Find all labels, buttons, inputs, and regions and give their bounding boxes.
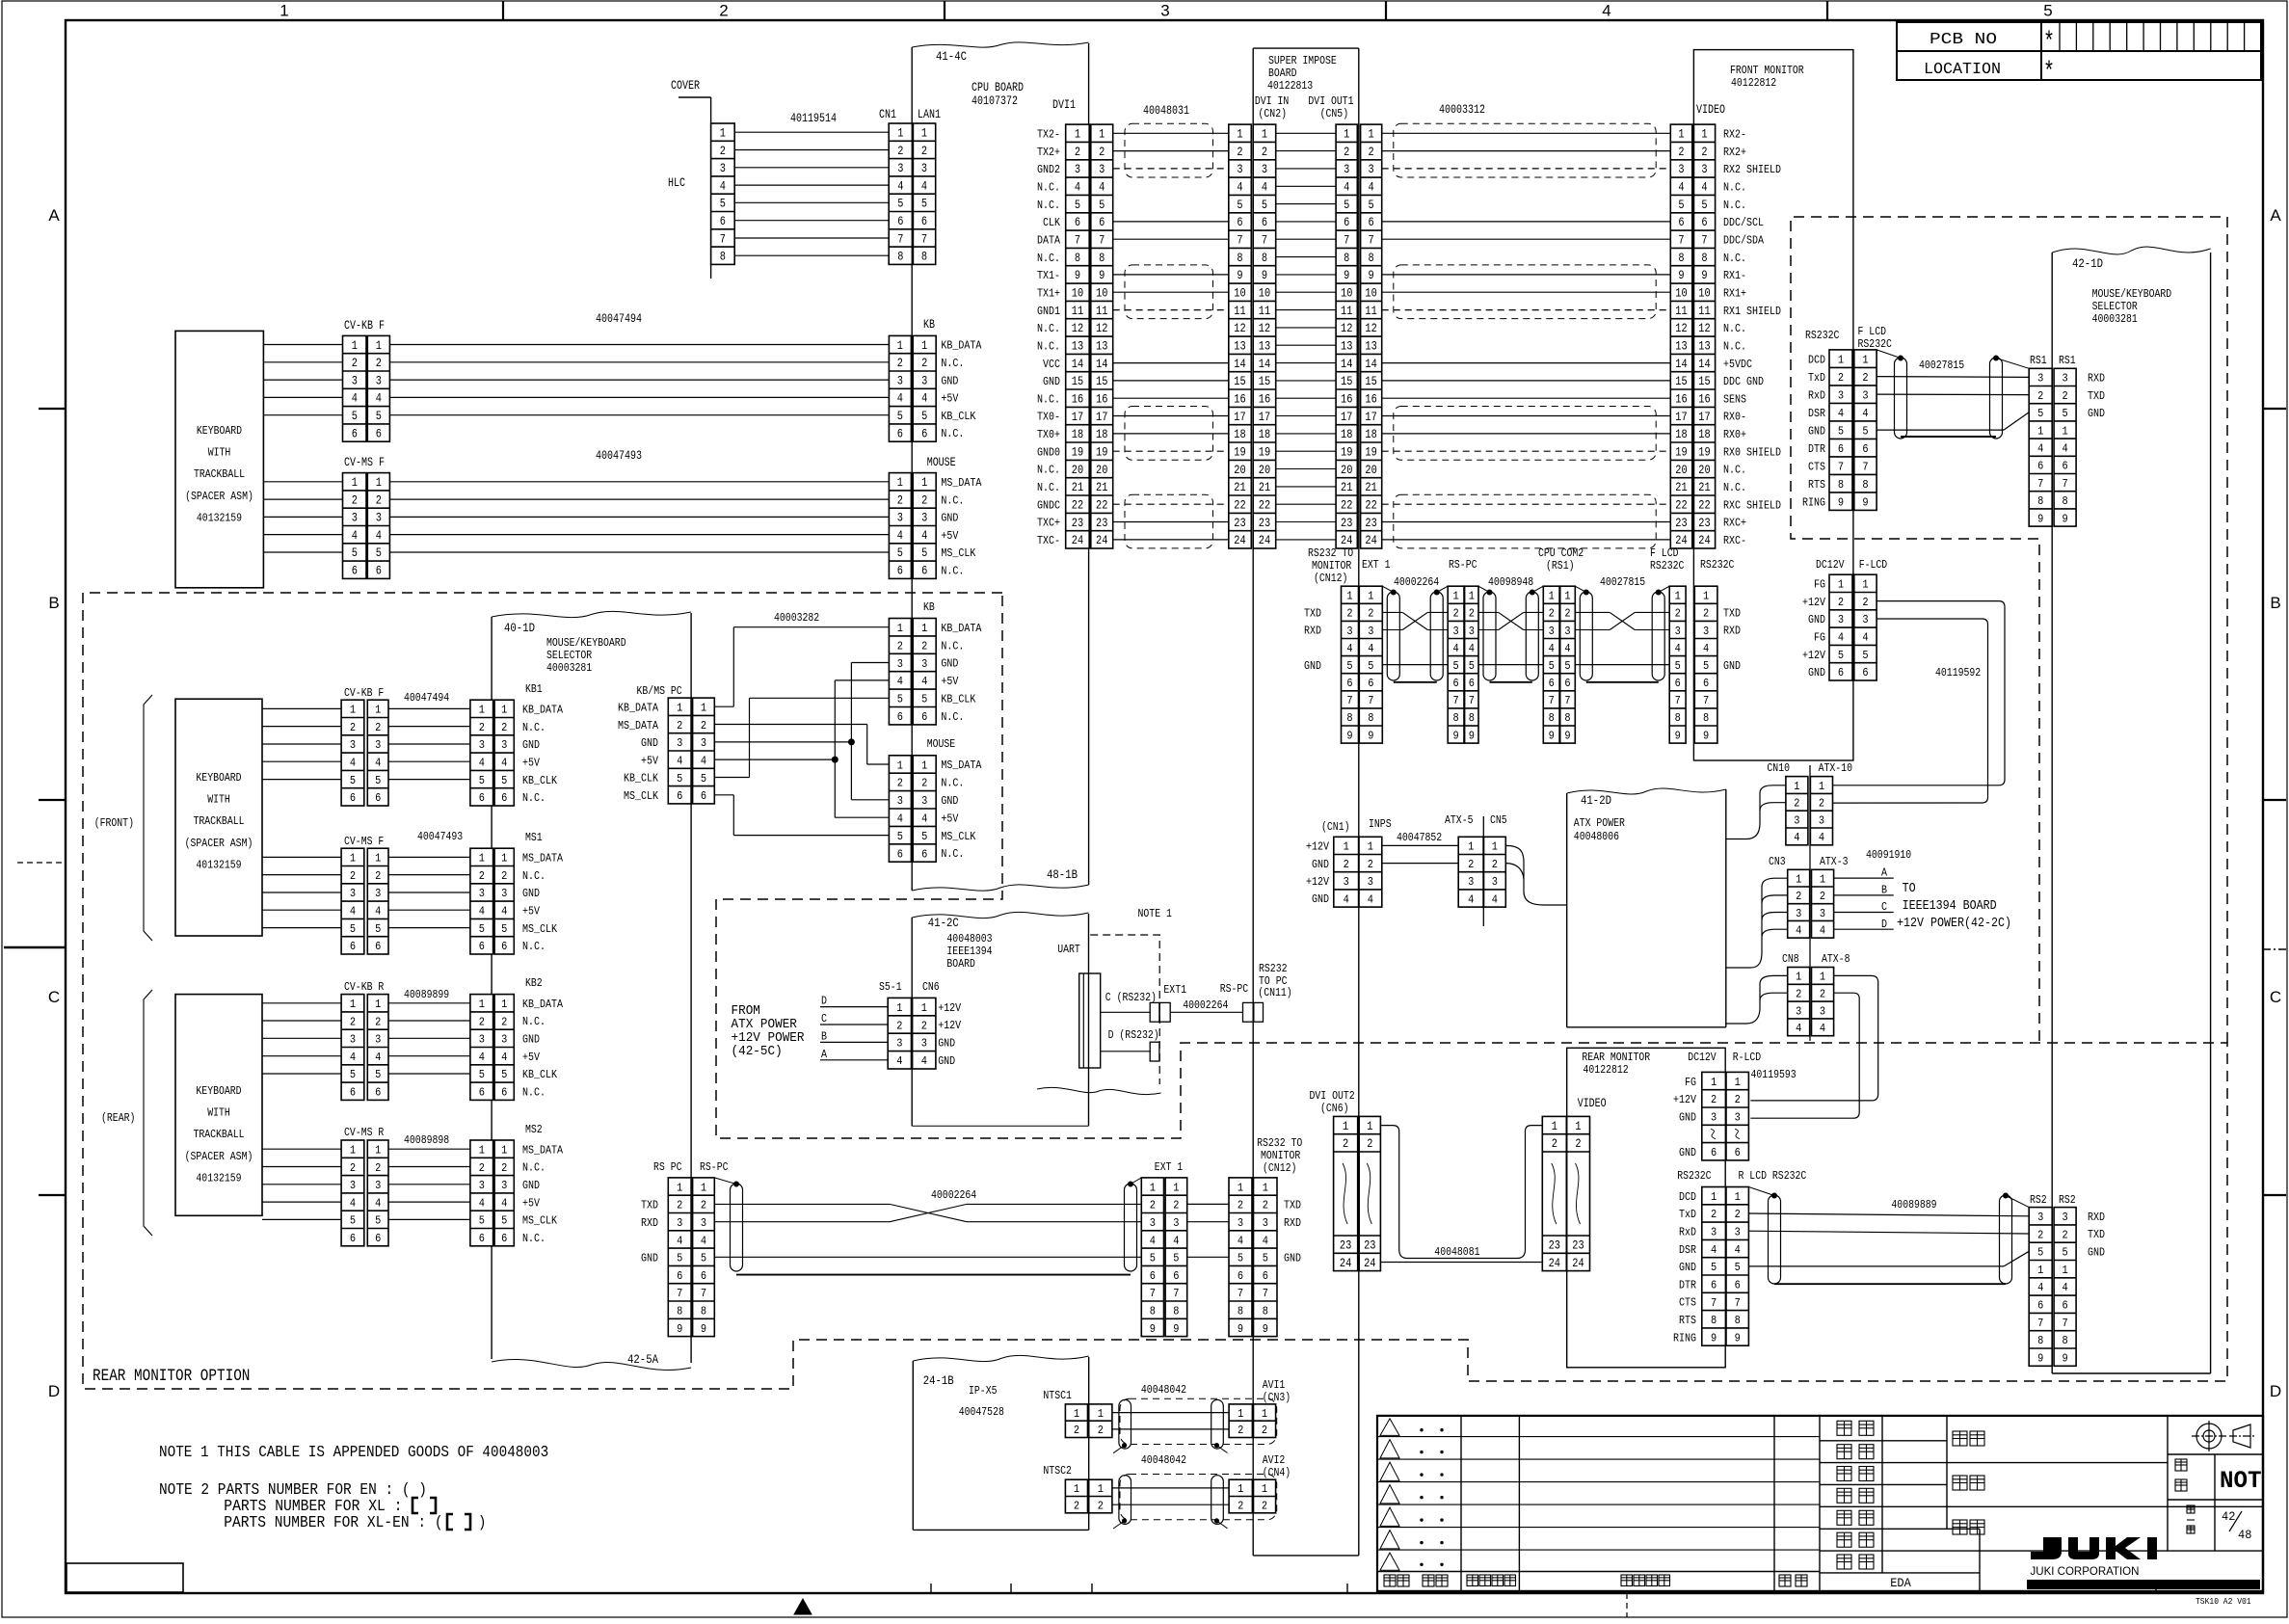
svg-text:5: 5 (701, 773, 706, 785)
svg-text:2: 2 (376, 357, 382, 370)
svg-text:6: 6 (677, 790, 682, 803)
svg-text:1: 1 (1368, 841, 1373, 854)
svg-text:6: 6 (1369, 216, 1374, 229)
svg-text:4: 4 (1150, 1235, 1156, 1247)
svg-text:CV-MS R: CV-MS R (344, 1127, 384, 1139)
svg-text:5: 5 (376, 546, 382, 560)
bracket front (144, 695, 152, 941)
svg-text:5: 5 (1549, 660, 1555, 673)
svg-text:4: 4 (896, 1055, 902, 1068)
svg-text:EXT 1: EXT 1 (1155, 1161, 1184, 1174)
svg-text:6: 6 (897, 711, 903, 724)
dashed boundary F-LCD option region (1791, 217, 2227, 1043)
svg-text:RS2: RS2 (2059, 1194, 2076, 1207)
svg-text:6: 6 (897, 565, 903, 578)
svg-text:5: 5 (1453, 660, 1459, 673)
svg-text:4: 4 (1346, 643, 1352, 655)
svg-text:2: 2 (479, 1162, 485, 1175)
svg-text:6: 6 (921, 565, 927, 578)
svg-text:4: 4 (352, 529, 358, 543)
svg-text:23: 23 (1572, 1239, 1584, 1253)
svg-text:+5V: +5V (522, 1197, 540, 1210)
svg-text:2: 2 (897, 778, 903, 790)
svg-text:2: 2 (1675, 608, 1681, 621)
svg-text:2: 2 (921, 640, 927, 652)
title block frame (1377, 1416, 2263, 1591)
svg-text:+5V: +5V (522, 906, 540, 918)
svg-text:GND: GND (1723, 660, 1741, 673)
svg-text:DSR: DSR (1808, 408, 1825, 420)
svg-text:2: 2 (1367, 1137, 1372, 1151)
svg-text:24: 24 (1341, 534, 1352, 547)
svg-text:N.C.: N.C. (522, 722, 546, 734)
connector RS PC lower (668, 1178, 714, 1337)
svg-text:5: 5 (1735, 1262, 1741, 1274)
svg-text:8: 8 (1099, 252, 1105, 265)
svg-text:40003281: 40003281 (2092, 313, 2138, 326)
svg-text:8: 8 (1369, 252, 1374, 265)
svg-text:5: 5 (1703, 660, 1709, 673)
svg-text:SUPER IMPOSE: SUPER IMPOSE (1268, 55, 1337, 67)
svg-text:1: 1 (1575, 1120, 1581, 1133)
svg-text:2: 2 (1346, 608, 1352, 621)
svg-text:KEYBOARD: KEYBOARD (196, 772, 241, 785)
svg-text:2: 2 (1099, 146, 1105, 159)
svg-text:CN10: CN10 (1767, 762, 1790, 775)
svg-text:1: 1 (1552, 1120, 1557, 1133)
svg-text:8: 8 (1173, 1306, 1179, 1318)
svg-text:N.C.: N.C. (1723, 465, 1746, 477)
svg-text:40122812: 40122812 (1584, 1064, 1629, 1077)
svg-text:15: 15 (1259, 375, 1270, 388)
svg-text:3: 3 (1819, 814, 1824, 827)
svg-text:KB: KB (923, 318, 935, 332)
svg-text:3: 3 (1678, 163, 1684, 176)
svg-text:7: 7 (1564, 695, 1570, 707)
svg-text:KB_CLK: KB_CLK (522, 775, 557, 787)
svg-text:5: 5 (350, 923, 356, 936)
connector DC12V F-LCD (1829, 574, 1876, 680)
svg-text:9: 9 (1173, 1323, 1179, 1336)
svg-text:3: 3 (350, 1180, 356, 1192)
svg-text:3: 3 (897, 374, 903, 387)
svg-text:1: 1 (501, 853, 507, 865)
svg-text:4: 4 (701, 755, 706, 767)
svg-text:1: 1 (1796, 972, 1801, 984)
svg-text:LOCATION: LOCATION (1924, 61, 2001, 79)
svg-text:RING: RING (1673, 1332, 1696, 1344)
svg-text:1: 1 (479, 1145, 485, 1158)
svg-text:3: 3 (1369, 163, 1374, 176)
svg-text:1: 1 (1367, 1120, 1372, 1133)
connector CV-KB F front (343, 335, 390, 441)
svg-text:5: 5 (1711, 1262, 1717, 1274)
svg-text:41-4C: 41-4C (936, 50, 967, 64)
svg-text:3: 3 (350, 739, 356, 752)
svg-text:24: 24 (1549, 1257, 1560, 1270)
svg-text:1: 1 (897, 127, 903, 141)
svg-text:3: 3 (2063, 373, 2068, 386)
svg-text:1: 1 (1564, 591, 1570, 603)
svg-text:MOUSE: MOUSE (927, 738, 956, 751)
svg-text:3: 3 (375, 888, 381, 900)
svg-text:WITH: WITH (207, 794, 230, 807)
svg-text:TX1+: TX1+ (1037, 287, 1060, 300)
svg-text:6: 6 (1238, 1270, 1243, 1283)
svg-text:INPS: INPS (1369, 818, 1392, 831)
connector RS1 mouse keyboard selector (2029, 368, 2076, 526)
svg-text:1: 1 (350, 998, 356, 1011)
svg-text:5: 5 (897, 546, 903, 560)
svg-text:8: 8 (1701, 252, 1707, 265)
svg-text:KB_CLK: KB_CLK (624, 773, 658, 785)
svg-text:C: C (48, 988, 60, 1006)
svg-text:1: 1 (1819, 781, 1824, 793)
svg-text:4: 4 (720, 179, 726, 193)
svg-text:MS_DATA: MS_DATA (941, 477, 981, 490)
svg-text:2: 2 (1796, 989, 1801, 1001)
svg-text:TX0+: TX0+ (1037, 429, 1060, 441)
svg-text:19: 19 (1341, 446, 1352, 460)
svg-text:40089889: 40089889 (1891, 1199, 1936, 1211)
svg-text:7: 7 (1711, 1297, 1717, 1310)
svg-text:KB_CLK: KB_CLK (941, 694, 975, 706)
svg-text:N.C.: N.C. (941, 640, 964, 652)
svg-text:6: 6 (375, 792, 381, 805)
svg-text:6: 6 (1735, 1147, 1741, 1159)
svg-text:1: 1 (1262, 128, 1267, 142)
svg-text:DATA: DATA (1037, 234, 1060, 247)
svg-text:6: 6 (501, 1087, 507, 1100)
svg-text:1: 1 (921, 623, 927, 635)
connector AVI2 (1229, 1479, 1276, 1513)
svg-text:23: 23 (1341, 517, 1352, 530)
svg-text:9: 9 (1369, 269, 1374, 282)
svg-text:MS2: MS2 (525, 1124, 543, 1136)
svg-text:16: 16 (1234, 393, 1245, 407)
svg-text:16: 16 (1072, 393, 1083, 407)
svg-text:5: 5 (2037, 408, 2043, 420)
svg-text:10: 10 (1072, 287, 1083, 301)
svg-text:+12V POWER(42-2C): +12V POWER(42-2C) (1897, 917, 2011, 931)
svg-text:+12V: +12V (1306, 841, 1329, 854)
connector RS2 (2029, 1208, 2076, 1367)
svg-text:9: 9 (2063, 1353, 2068, 1366)
svg-text:2: 2 (1098, 1424, 1104, 1437)
svg-text:1: 1 (501, 705, 507, 717)
svg-text:1: 1 (1343, 1120, 1348, 1133)
svg-text:40027815: 40027815 (1600, 576, 1645, 589)
svg-text:6: 6 (1862, 667, 1868, 679)
svg-text:10: 10 (1096, 287, 1107, 301)
svg-text:5: 5 (701, 1253, 706, 1265)
svg-text:6: 6 (921, 711, 927, 724)
svg-text:N.C.: N.C. (941, 428, 964, 440)
svg-text:6: 6 (1099, 216, 1105, 229)
svg-text:5: 5 (1701, 199, 1707, 212)
svg-text:5: 5 (1369, 199, 1374, 212)
svg-text:40119593: 40119593 (1751, 1069, 1797, 1081)
svg-text:1: 1 (350, 705, 356, 717)
svg-text:40119514: 40119514 (790, 112, 837, 125)
svg-text:GND: GND (641, 1253, 658, 1265)
svg-text:4: 4 (1838, 408, 1844, 420)
svg-text:EXT 1: EXT 1 (1362, 559, 1391, 572)
svg-text:23: 23 (1698, 517, 1710, 530)
svg-text:21: 21 (1259, 481, 1270, 494)
svg-text:9: 9 (1263, 1323, 1268, 1336)
connector CN3 ATX-3 (1788, 869, 1834, 938)
svg-text:TX2-: TX2- (1037, 129, 1060, 142)
svg-text:18: 18 (1096, 428, 1107, 441)
svg-text:19: 19 (1698, 446, 1710, 460)
svg-text:9: 9 (1238, 1323, 1243, 1336)
svg-text:R LCD RS232C: R LCD RS232C (1739, 1170, 1807, 1183)
svg-text:2: 2 (1838, 597, 1844, 609)
svg-text:6: 6 (479, 1233, 485, 1245)
svg-text:2: 2 (1238, 1424, 1243, 1437)
svg-text:2: 2 (375, 1162, 381, 1175)
wire EXT1 to RS-PC plug (1170, 1011, 1242, 1013)
svg-text:40089898: 40089898 (404, 1134, 449, 1147)
svg-text:4: 4 (2063, 443, 2068, 456)
svg-text:3: 3 (1838, 614, 1844, 626)
svg-text:3: 3 (479, 1180, 485, 1192)
svg-text:TO PC: TO PC (1259, 975, 1288, 988)
svg-text:2: 2 (376, 493, 382, 507)
svg-text:1: 1 (479, 998, 485, 1011)
svg-text:5: 5 (1075, 199, 1080, 212)
svg-text:40048006: 40048006 (1574, 831, 1619, 843)
svg-text:40132159: 40132159 (197, 512, 242, 524)
svg-text:EDA: EDA (1890, 1576, 1911, 1590)
wires keyboard to CV-MS F (263, 481, 342, 483)
svg-text:GND: GND (1043, 376, 1060, 388)
connector AVI1 (1229, 1404, 1276, 1438)
svg-text:EXT1: EXT1 (1163, 984, 1186, 997)
svg-text:13: 13 (1698, 340, 1710, 354)
svg-text:2: 2 (1074, 1424, 1079, 1437)
svg-text:8: 8 (1862, 479, 1868, 492)
svg-text:TXD: TXD (1284, 1200, 1301, 1212)
svg-text:2: 2 (1344, 146, 1349, 159)
svg-text:7: 7 (1344, 234, 1349, 248)
svg-text:3: 3 (501, 739, 507, 752)
svg-text:GND: GND (1304, 660, 1321, 673)
svg-text:TXD: TXD (1304, 608, 1321, 621)
svg-text:6: 6 (1150, 1270, 1156, 1283)
svg-text:2: 2 (896, 1020, 902, 1032)
svg-text:CN5: CN5 (1490, 814, 1507, 827)
svg-text:DTR: DTR (1679, 1279, 1696, 1291)
svg-text:6: 6 (720, 215, 726, 228)
svg-text:(CN12): (CN12) (1263, 1162, 1296, 1175)
svg-text:23: 23 (1234, 517, 1245, 530)
svg-text:PARTS NUMBER FOR XL-EN : (: PARTS NUMBER FOR XL-EN : ( (224, 1513, 442, 1531)
svg-text:23: 23 (1549, 1239, 1560, 1253)
svg-text:1: 1 (1074, 1408, 1079, 1421)
svg-text:6: 6 (1469, 678, 1475, 690)
svg-text:15: 15 (1234, 375, 1245, 388)
svg-text:3: 3 (1075, 163, 1080, 176)
svg-text:1: 1 (677, 1182, 682, 1194)
svg-text:MS_DATA: MS_DATA (618, 720, 658, 732)
svg-text:4: 4 (479, 1197, 485, 1210)
svg-text:20: 20 (1259, 464, 1270, 477)
svg-text:7: 7 (1238, 1288, 1243, 1300)
svg-text:20: 20 (1698, 464, 1710, 477)
svg-text:40-1D: 40-1D (504, 622, 535, 635)
svg-text:13: 13 (1341, 340, 1352, 354)
svg-text:(CN12): (CN12) (1314, 572, 1347, 585)
board CPU BOARD 41-4C outline (911, 47, 913, 891)
svg-text:+12V POWER: +12V POWER (732, 1031, 805, 1046)
svg-text:9: 9 (1469, 730, 1475, 742)
svg-text:4: 4 (1468, 893, 1474, 906)
svg-text:4: 4 (501, 1052, 507, 1064)
svg-text:7: 7 (1735, 1297, 1741, 1310)
wires CV-KB F to KB (389, 344, 889, 346)
svg-text:6: 6 (1453, 678, 1459, 690)
svg-text:TxD: TxD (1679, 1209, 1696, 1221)
svg-text:RXD: RXD (641, 1217, 658, 1230)
svg-text:40047493: 40047493 (596, 449, 642, 463)
connector MOUSE upper (889, 473, 936, 579)
svg-text:3: 3 (352, 374, 358, 387)
connector RS-PC plug CN11 (1243, 1002, 1254, 1022)
svg-text:CV-KB R: CV-KB R (344, 981, 384, 994)
svg-text:UART: UART (1057, 944, 1080, 956)
svg-text:(CN11): (CN11) (1258, 987, 1291, 999)
svg-text:KB_DATA: KB_DATA (941, 623, 981, 635)
svg-text:GND: GND (1679, 1262, 1696, 1274)
connector KB2 (470, 995, 514, 1101)
svg-text:DC12V: DC12V (1688, 1052, 1717, 1064)
wires DVI IN to DVI OUT1 (1276, 132, 1336, 134)
svg-text:IEEE1394 BOARD: IEEE1394 BOARD (1903, 899, 1997, 914)
svg-text:KB_CLK: KB_CLK (522, 1069, 557, 1081)
wires CV-KB F to KB1 (388, 707, 470, 709)
svg-text:8: 8 (1711, 1315, 1717, 1327)
svg-text:4: 4 (375, 758, 381, 770)
svg-text:FROM: FROM (732, 1004, 760, 1019)
svg-text:15: 15 (1675, 375, 1687, 388)
svg-text:4: 4 (376, 392, 382, 406)
svg-text:RS232C: RS232C (1677, 1170, 1711, 1183)
svg-text:+5V: +5V (522, 758, 540, 770)
svg-text:(CN6): (CN6) (1320, 1103, 1349, 1115)
svg-text:6: 6 (921, 427, 927, 440)
svg-text:6: 6 (1564, 678, 1570, 690)
svg-text:2: 2 (1735, 1209, 1741, 1221)
connector KB upper (889, 335, 936, 441)
svg-text:N.C.: N.C. (1723, 482, 1746, 494)
svg-text:GND: GND (1679, 1111, 1696, 1124)
svg-text:RXC SHIELD: RXC SHIELD (1723, 499, 1781, 512)
svg-text:10: 10 (1365, 287, 1376, 301)
svg-text:1: 1 (350, 853, 356, 865)
svg-text:42: 42 (2222, 1509, 2235, 1524)
svg-text:24: 24 (1698, 534, 1710, 547)
svg-text:1: 1 (1820, 873, 1825, 886)
svg-text:24: 24 (1365, 534, 1376, 547)
svg-text:6: 6 (1838, 443, 1844, 456)
svg-text:2: 2 (1173, 1200, 1179, 1212)
board IP-X5 24-1B outline (912, 1361, 914, 1530)
svg-text:6: 6 (1237, 216, 1242, 229)
svg-text:4: 4 (1344, 893, 1349, 906)
svg-text:B: B (1881, 884, 1887, 896)
svg-text:+5V: +5V (641, 755, 658, 767)
svg-text:6: 6 (479, 792, 485, 805)
svg-text:5: 5 (1173, 1253, 1179, 1265)
svg-text:5: 5 (375, 775, 381, 787)
svg-text:5: 5 (2063, 408, 2068, 420)
svg-text:CPU COM2: CPU COM2 (1538, 547, 1584, 560)
svg-text:TXC+: TXC+ (1037, 518, 1060, 530)
svg-text:3: 3 (350, 888, 356, 900)
svg-text:(REAR): (REAR) (101, 1112, 135, 1125)
connector EXT1 plug (1150, 1002, 1159, 1022)
svg-text:1: 1 (921, 476, 927, 490)
svg-text:6: 6 (2037, 1300, 2043, 1313)
svg-text:TRACKBALL: TRACKBALL (194, 468, 245, 481)
svg-text:5: 5 (2037, 1247, 2043, 1260)
svg-text:41-2D: 41-2D (1581, 794, 1611, 808)
svg-text:C (RS232): C (RS232) (1105, 992, 1157, 1004)
svg-text:11: 11 (1365, 305, 1376, 318)
svg-text:6: 6 (1711, 1280, 1717, 1292)
svg-text:1: 1 (1492, 841, 1498, 854)
svg-text:17: 17 (1365, 411, 1376, 424)
svg-text:+12V: +12V (938, 1002, 961, 1015)
svg-text:1: 1 (1368, 591, 1373, 603)
svg-text:3: 3 (701, 1217, 706, 1230)
svg-text:7: 7 (1099, 234, 1105, 248)
svg-text:N.C.: N.C. (1037, 482, 1060, 494)
svg-text:8: 8 (2037, 495, 2043, 508)
svg-text:GND: GND (522, 888, 540, 900)
svg-text:1: 1 (1346, 591, 1352, 603)
svg-text:4: 4 (1796, 925, 1801, 938)
connector D plug (1150, 1042, 1159, 1061)
svg-text:+5V: +5V (941, 393, 958, 406)
svg-text:1: 1 (479, 705, 485, 717)
svg-text:9: 9 (1237, 269, 1242, 282)
svg-text:2: 2 (1468, 859, 1474, 871)
svg-text:20: 20 (1096, 464, 1107, 477)
svg-text:N.C.: N.C. (522, 1233, 546, 1245)
svg-text:RS232 TO: RS232 TO (1308, 547, 1353, 560)
svg-text:5: 5 (897, 694, 903, 706)
svg-text:18: 18 (1341, 428, 1352, 441)
connector INPS CN1 (1334, 837, 1382, 907)
svg-text:FG: FG (1685, 1077, 1696, 1089)
svg-text:2: 2 (375, 870, 381, 883)
svg-text:RX0-: RX0- (1723, 412, 1746, 424)
cable 40003312 wires DVI OUT1 to VIDEO (1382, 132, 1671, 134)
svg-text:2: 2 (1368, 859, 1373, 871)
cable 40048042 NTSC2 to AVI2 (1120, 1475, 1277, 1520)
svg-text:2: 2 (1237, 146, 1242, 159)
svg-text:REAR MONITOR: REAR MONITOR (1582, 1052, 1650, 1064)
svg-text:8: 8 (1703, 712, 1709, 725)
svg-text:3: 3 (501, 1180, 507, 1192)
svg-text:SELECTOR: SELECTOR (2092, 301, 2138, 313)
svg-text:GND: GND (941, 375, 958, 387)
svg-text:24: 24 (1234, 534, 1245, 547)
svg-text:4: 4 (1701, 181, 1707, 195)
